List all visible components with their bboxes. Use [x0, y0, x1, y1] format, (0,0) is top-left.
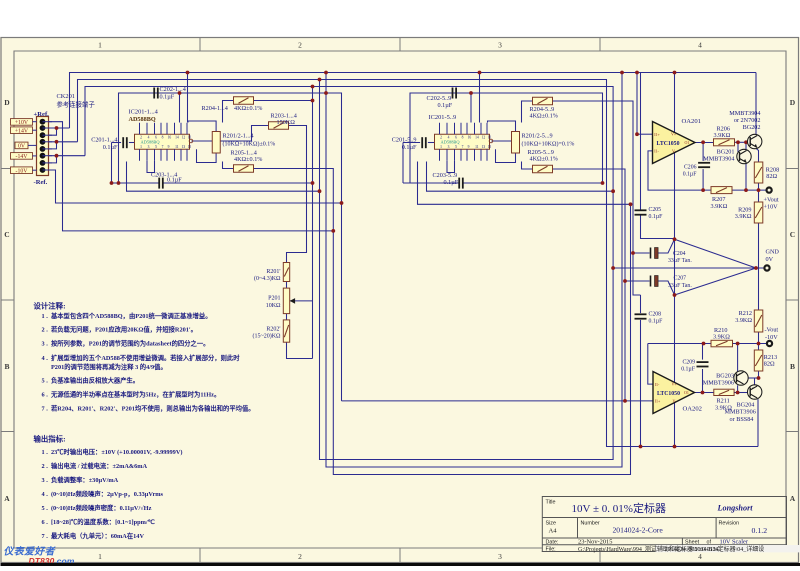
- svg-text:Sheet: Sheet: [685, 540, 700, 546]
- wire rail R209-GND: [758, 223, 760, 268]
- op-amp OA202 LTC1050: [653, 372, 695, 414]
- wire OA201 I1+ tap: [637, 133, 653, 135]
- svg-text:5: 5: [455, 145, 457, 149]
- wire C202 row block2: [410, 93, 603, 183]
- wire C203-1..4 row: [112, 182, 160, 184]
- wire C201-1..4 to IC: [129, 142, 135, 144]
- svg-text:11: 11: [475, 145, 479, 149]
- junction C204 lead: [631, 251, 635, 255]
- junction R211 node: [736, 391, 740, 395]
- svg-text:0V: 0V: [766, 256, 774, 263]
- junction x312 bus3: [311, 85, 315, 89]
- svg-text:A4: A4: [549, 528, 558, 535]
- junction GND row left: [611, 266, 615, 270]
- wire R207 out row to +Vout: [732, 189, 766, 191]
- wire triangle top diagonal: [675, 239, 757, 268]
- svg-text:3: 3: [148, 145, 150, 149]
- net label box 0V: [15, 142, 28, 149]
- junction BG201 emitter node: [744, 188, 748, 192]
- wire C204 right lead: [658, 239, 674, 253]
- svg-text:R212: R212: [739, 310, 752, 317]
- svg-text:13: 13: [182, 145, 186, 149]
- wire BG203 bottom fall: [737, 385, 739, 392]
- svg-text:C208: C208: [649, 312, 662, 318]
- svg-text:V+: V+: [672, 382, 678, 387]
- junction C202 row x325: [324, 91, 328, 95]
- svg-text:LTC1050: LTC1050: [657, 391, 680, 397]
- svg-text:0.1µF: 0.1µF: [444, 179, 459, 186]
- wire C208 column: [640, 295, 642, 313]
- junction block2 C203 row end: [601, 181, 605, 185]
- net label box -14V: [11, 153, 33, 160]
- svg-text:R201/2-5...9: R201/2-5...9: [522, 133, 553, 140]
- svg-text:(10KΩ+10KΩ)±0.1%: (10KΩ+10KΩ)±0.1%: [223, 140, 276, 147]
- svg-text:MMBT3904: MMBT3904: [729, 110, 760, 117]
- wire C201-5..9 to IC: [428, 142, 435, 144]
- svg-text:BG202: BG202: [743, 124, 761, 131]
- svg-text:7 . 最大耗电（九单元）：60mA在14V: 7 . 最大耗电（九单元）：60mA在14V: [42, 531, 145, 540]
- svg-text:3 . 按所列参数，P201的调节范围约为datashee: 3 . 按所列参数，P201的调节范围约为datasheet的四分之一。: [42, 339, 210, 348]
- transistor BG204 MMBT3906: [748, 385, 762, 399]
- svg-text:3.9KΩ: 3.9KΩ: [715, 405, 732, 412]
- svg-text:3.9KΩ: 3.9KΩ: [735, 317, 752, 324]
- svg-text:Longshort: Longshort: [717, 504, 754, 513]
- junction y446 x640: [639, 445, 643, 449]
- svg-text:Title: Title: [546, 500, 556, 506]
- svg-text:-10V: -10V: [16, 168, 29, 174]
- svg-text:3 . 负载调整率：±30µV/mA: 3 . 负载调整率：±30µV/mA: [42, 475, 119, 484]
- svg-text:R201/2-1...4: R201/2-1...4: [223, 133, 254, 140]
- transistor BG203 MMBT3906: [734, 371, 748, 385]
- svg-text:4KΩ±0.1%: 4KΩ±0.1%: [530, 156, 558, 163]
- wire OA202 out: [695, 392, 714, 394]
- svg-text:6 . 无源低通的半功率点在基本型时为5Hz，在扩展型时为: 6 . 无源低通的半功率点在基本型时为5Hz，在扩展型时为11Hz。: [42, 390, 221, 399]
- capacitor C203-1..4: [159, 178, 163, 189]
- connector CK201 pins: [40, 119, 46, 173]
- junction GND star: [754, 266, 758, 270]
- net label box -10V: [11, 167, 33, 174]
- wire C205 column bottom: [641, 215, 675, 238]
- resistor R209: [754, 202, 763, 223]
- ground terminal GND 0V: [764, 265, 769, 270]
- wire P201 wiper row: [290, 300, 313, 302]
- svg-text:0.1µF: 0.1µF: [649, 319, 664, 325]
- svg-text:10V ± 0. 01%定标器: 10V ± 0. 01%定标器: [572, 501, 666, 515]
- svg-text:-10V: -10V: [765, 334, 778, 341]
- svg-text:2 . 若负载无问题，P201应改用20KΩ值，并短接R2: 2 . 若负载无问题，P201应改用20KΩ值，并短接R201'。: [42, 325, 197, 334]
- wire BG201 emitter fall: [745, 163, 747, 190]
- svg-text:MMBT3904: MMBT3904: [703, 155, 734, 162]
- svg-text:V+: V+: [671, 132, 677, 137]
- svg-text:R202': R202': [266, 327, 280, 333]
- junction OA201 out node: [701, 140, 705, 144]
- wire IC1 bottom U: [147, 161, 155, 173]
- svg-text:AD588BQ: AD588BQ: [141, 140, 161, 145]
- resistor R208: [754, 162, 763, 183]
- svg-text:16: 16: [468, 135, 472, 139]
- wire loop1 vertical: [312, 87, 314, 359]
- capacitor C208: [635, 314, 647, 318]
- resistor R213: [754, 350, 763, 371]
- junction pin4/5: [55, 140, 59, 144]
- potentiometer P201 body: [283, 288, 289, 314]
- wire R204-1..4 row: [223, 101, 234, 123]
- file path highlight: [656, 545, 800, 552]
- wire rail R212 to -Vout row: [758, 332, 760, 344]
- svg-text:GND: GND: [766, 249, 780, 256]
- junction IC1 riser b: [186, 71, 190, 75]
- wire GND row: [613, 267, 764, 269]
- svg-text:C201-1...4: C201-1...4: [91, 137, 117, 144]
- svg-text:4 . (0~10)Hz频段噪声：2µVp-p，0.33µ: 4 . (0~10)Hz频段噪声：2µVp-p，0.33µVrms: [42, 489, 164, 498]
- svg-text:12: 12: [482, 135, 486, 139]
- svg-text:设计注释:: 设计注释:: [34, 302, 66, 311]
- wire BG201 collector riser: [745, 142, 747, 150]
- junction C202-5..9 row x470: [469, 91, 473, 95]
- wire pin8 -10V route: [49, 170, 342, 203]
- junction C202 row x179: [178, 91, 182, 95]
- wire BG203 base riser: [737, 344, 739, 374]
- svg-text:14: 14: [175, 135, 179, 139]
- wire C207 left lead: [625, 280, 650, 282]
- svg-text:+10V: +10V: [764, 204, 779, 211]
- svg-text:I1+: I1+: [654, 132, 660, 137]
- wire rail BG202 collector: [755, 73, 757, 135]
- capacitor C202-1..4: [154, 88, 158, 99]
- svg-text:2014024 10V±0.01%定标器\04_详细设: 2014024 10V±0.01%定标器\04_详细设: [665, 545, 765, 553]
- resistor R204-1..4: [234, 97, 254, 105]
- wire BG201 base riser: [737, 142, 739, 152]
- svg-text:1: 1: [440, 145, 442, 149]
- svg-text:1 . 基本型包含四个AD588BQ，由P201统一微调正: 1 . 基本型包含四个AD588BQ，由P201统一微调正基准增益。: [42, 311, 212, 320]
- junction OA201 I1+ tap: [635, 132, 639, 136]
- svg-text:R201': R201': [266, 269, 280, 275]
- junction BG201 collector: [744, 140, 748, 144]
- svg-text:-14V: -14V: [16, 154, 29, 160]
- svg-text:3: 3: [448, 145, 450, 149]
- junction +Vout rail: [757, 188, 761, 192]
- svg-text:C206: C206: [684, 164, 697, 170]
- wire C202-5..9 right lead: [454, 92, 602, 94]
- svg-text:(0~4.3)KΩ: (0~4.3)KΩ: [254, 275, 281, 282]
- wire C202-5..9 left lead: [410, 92, 451, 94]
- svg-text:C209: C209: [682, 360, 695, 366]
- wire OA202 V+ feed: [674, 295, 676, 382]
- connector CK201 pin stubs: [43, 122, 53, 170]
- svg-text:O1: O1: [685, 140, 690, 145]
- resistor R212: [754, 310, 763, 332]
- svg-text:3: 3: [498, 552, 502, 561]
- svg-text:B: B: [790, 362, 795, 371]
- junction top bus x637: [635, 71, 639, 75]
- svg-text:P201的调节范围将再减为注释 3 的4/9值。: P201的调节范围将再减为注释 3 的4/9值。: [42, 362, 167, 371]
- wire C201-5..9 left riser: [402, 143, 404, 184]
- junction fb R207 node: [701, 188, 705, 192]
- svg-text:0.1µF: 0.1µF: [438, 102, 453, 109]
- svg-text:0.1µF: 0.1µF: [160, 94, 175, 101]
- junction loop2 top bus1: [324, 71, 328, 75]
- svg-text:Number: Number: [581, 521, 600, 527]
- svg-text:2: 2: [298, 552, 302, 561]
- svg-text:33µF Tan.: 33µF Tan.: [668, 258, 692, 264]
- svg-text:R211: R211: [717, 398, 730, 405]
- svg-text:-Vout: -Vout: [765, 327, 779, 334]
- junction C209 bottom node: [701, 391, 705, 395]
- svg-text:2 . 输出电流 / 过载电流：±2mA&6mA: 2 . 输出电流 / 过载电流：±2mA&6mA: [42, 461, 148, 470]
- svg-text:9: 9: [468, 145, 470, 149]
- svg-text:6 . [18~28]℃的温度系数：[0.1~1]ppm/: 6 . [18~28]℃的温度系数：[0.1~1]ppm/℃: [42, 517, 155, 526]
- svg-text:3.9KΩ: 3.9KΩ: [713, 334, 730, 341]
- op-amp U IC201-5..9 AD588BQ body: [435, 123, 493, 161]
- capacitor C207 33µF: [651, 276, 659, 287]
- svg-text:0.1µF: 0.1µF: [103, 144, 118, 151]
- wire R211 to BG204 base: [734, 392, 750, 394]
- svg-text:3.9KΩ: 3.9KΩ: [714, 132, 731, 139]
- wire IC1 riser b: [187, 73, 189, 123]
- svg-text:CK201: CK201: [57, 93, 75, 100]
- junction R206 out node: [736, 140, 740, 144]
- svg-text:15: 15: [488, 145, 492, 149]
- svg-text:82Ω: 82Ω: [766, 173, 777, 180]
- junction IC2 fb row end: [629, 202, 633, 206]
- wire top bus row2: [78, 80, 759, 447]
- junction R210 left node: [702, 342, 706, 346]
- terminal -Vout: [767, 341, 772, 346]
- svg-text:150KΩ: 150KΩ: [277, 119, 296, 126]
- svg-text:1: 1: [98, 41, 102, 50]
- svg-text:C203-5..9: C203-5..9: [433, 172, 458, 179]
- svg-text:IC201-1...4: IC201-1...4: [129, 109, 159, 116]
- svg-text:33µF Tan.: 33µF Tan.: [668, 283, 692, 289]
- svg-text:3.9KΩ: 3.9KΩ: [711, 203, 728, 210]
- wire R201/2-5..9 top lead: [488, 121, 516, 132]
- wire C209 column a: [702, 344, 704, 360]
- wire OA202 I1+ long: [342, 400, 654, 402]
- wire pin3 join: [49, 128, 57, 135]
- svg-text:0.1µF: 0.1µF: [649, 214, 664, 220]
- resistor R201': [283, 263, 289, 282]
- svg-text:Date:: Date:: [546, 540, 559, 546]
- wire C204 left lead: [633, 252, 650, 254]
- wire R205-1..4 row: [223, 162, 234, 169]
- op-amp U IC201-1..4 AD588BQ body: [135, 123, 193, 161]
- wire R203-1..4 feed: [220, 126, 268, 142]
- wire R205-1..4 out: [254, 169, 631, 475]
- wire top bus row3: [85, 80, 613, 460]
- wire loop2: [326, 73, 622, 468]
- svg-text:5 . 负基准输出由反相放大器产生。: 5 . 负基准输出由反相放大器产生。: [42, 376, 140, 385]
- svg-text:I1-: I1-: [654, 149, 659, 154]
- svg-text:C207: C207: [674, 276, 687, 282]
- svg-text:0.1.2: 0.1.2: [752, 526, 768, 535]
- wire OA201 out: [695, 142, 714, 144]
- wire C203-1..4 out: [163, 182, 313, 184]
- junction rail R213 bottom: [757, 376, 761, 380]
- svg-text:+Ref.: +Ref.: [34, 111, 50, 118]
- svg-text:0V: 0V: [18, 144, 26, 150]
- svg-text:AD588BQ: AD588BQ: [129, 116, 156, 123]
- wire R201/2-5..9 bottom lead: [496, 149, 516, 162]
- wire BG204 emitter riser: [754, 378, 756, 385]
- resistor R205-1..4: [234, 165, 254, 173]
- svg-text:82Ω: 82Ω: [764, 361, 775, 368]
- svg-text:C: C: [790, 230, 795, 239]
- junction C207 lead: [623, 279, 627, 283]
- wire rail BG202 emitter to R208: [756, 148, 759, 162]
- output specs list: [42, 447, 183, 540]
- svg-text:C205: C205: [649, 207, 662, 213]
- svg-text:+10V: +10V: [15, 120, 29, 126]
- svg-text:or 2N7002: or 2N7002: [734, 117, 761, 124]
- svg-text:AD588BQ: AD588BQ: [441, 140, 461, 145]
- junction +10V row end: [331, 229, 335, 233]
- svg-text:OA201: OA201: [682, 118, 701, 125]
- svg-text:输出指标:: 输出指标:: [34, 435, 66, 444]
- svg-text:of: of: [707, 540, 712, 546]
- svg-text:(15~20)KΩ: (15~20)KΩ: [252, 332, 281, 339]
- svg-text:15: 15: [188, 145, 192, 149]
- wire C206 column b: [702, 169, 704, 190]
- junction pin2/3: [55, 126, 59, 130]
- wire R202' bottom loop: [287, 342, 313, 358]
- svg-text:1: 1: [140, 145, 142, 149]
- wire OA202 I1- feedback: [648, 344, 653, 385]
- title block frame: [542, 497, 786, 552]
- capacitor C203-5..9: [459, 178, 463, 189]
- junction C201 riser bottom: [110, 181, 114, 185]
- junction triangle bottom vertex: [673, 293, 677, 297]
- resistor R210: [711, 340, 733, 347]
- wire triangle left side: [674, 239, 676, 295]
- bottom black bar: [1, 563, 800, 567]
- wire R205-5..9 out: [553, 169, 626, 401]
- svg-text:2: 2: [298, 41, 302, 50]
- wire IC2 fb row2: [427, 162, 614, 192]
- svg-text:1: 1: [98, 552, 102, 561]
- capacitor C206: [698, 163, 710, 167]
- svg-text:I1+: I1+: [655, 399, 661, 404]
- svg-text:9: 9: [168, 145, 170, 149]
- wire C203-5..9 out: [463, 182, 603, 184]
- junction I1+ long x624: [623, 399, 627, 403]
- wire C202-1..4 left lead: [119, 92, 153, 94]
- svg-text:8: 8: [162, 135, 164, 139]
- svg-text:11: 11: [175, 145, 179, 149]
- wire R204-5..9 row: [522, 101, 533, 123]
- svg-text:0.1µF: 0.1µF: [167, 177, 182, 184]
- junction y446 x674: [673, 445, 677, 449]
- wire chain P201-R202': [286, 314, 288, 320]
- svg-text:A: A: [790, 494, 796, 503]
- junction triangle top vertex: [673, 237, 677, 241]
- svg-text:B: B: [4, 362, 9, 371]
- svg-text:4: 4: [698, 41, 702, 50]
- capacitor C201-5..9: [422, 137, 426, 148]
- wire R201/2-1..4 top lead: [188, 121, 216, 132]
- capacitor C202-5..9: [453, 88, 457, 99]
- svg-text:5 . (0~10)Hz频段噪声密度：0.11µV/√Hz: 5 . (0~10)Hz频段噪声密度：0.11µV/√Hz: [42, 503, 152, 512]
- transistor BG201 MMBT3904: [737, 149, 751, 163]
- wire OA201 I1+ column: [636, 73, 638, 135]
- resistor R204-5..9: [533, 97, 553, 105]
- capacitor C201-1..4: [123, 137, 127, 148]
- design notes list: [42, 311, 255, 413]
- wire OA201 V- to triangle: [674, 152, 676, 239]
- svg-text:3: 3: [498, 41, 502, 50]
- wire R206 to BG202 base: [735, 141, 750, 143]
- wire OA202 V- fall: [674, 403, 676, 447]
- svg-text:7: 7: [162, 145, 164, 149]
- wire chain R201'-P201: [286, 282, 288, 289]
- junction -Vout rail: [757, 342, 761, 346]
- svg-text:OA202: OA202: [683, 406, 702, 413]
- wire net label leads: [28, 122, 37, 171]
- wire pin5 join: [49, 142, 57, 149]
- wire R203-1..4 out to P201 chain: [287, 126, 307, 263]
- wire C205 column top: [640, 73, 642, 210]
- junction IC2 riser b: [478, 71, 482, 75]
- svg-text:14: 14: [475, 135, 479, 139]
- wire C204 junction drop: [633, 253, 641, 295]
- svg-text:16: 16: [168, 135, 172, 139]
- svg-text:C204: C204: [673, 251, 686, 257]
- svg-text:10KΩ: 10KΩ: [266, 303, 281, 309]
- svg-text:8: 8: [462, 135, 464, 139]
- resistor R211: [714, 389, 734, 395]
- svg-text:C201-5..9: C201-5..9: [392, 137, 417, 144]
- svg-text:O1: O1: [684, 390, 689, 395]
- wire top bus net +Ref row1: [70, 73, 757, 129]
- svg-text:3.9KΩ: 3.9KΩ: [735, 213, 752, 220]
- resistor R201/2-5..9: [512, 132, 520, 154]
- wire C207 right lead: [658, 281, 674, 295]
- svg-text:Revision: Revision: [719, 521, 740, 527]
- svg-text:4KΩ±0.1%: 4KΩ±0.1%: [234, 156, 262, 163]
- junction top bus x674: [673, 71, 677, 75]
- svg-text:13: 13: [482, 145, 486, 149]
- wire pin1 +10V route: [49, 122, 334, 231]
- junction R210 right node: [736, 342, 740, 346]
- svg-text:BG204: BG204: [737, 402, 755, 409]
- svg-text:1 . 23℃时输出电压：±10V (+10.00001V: 1 . 23℃时输出电压：±10V (+10.00001V, -9.99999V…: [42, 447, 183, 456]
- junction top bus x621: [620, 71, 624, 75]
- wire pin2 stub: [49, 127, 70, 129]
- connector CK201 body: [37, 117, 49, 176]
- wire triangle bottom diagonal: [675, 268, 757, 295]
- wire R210 out to -Vout: [733, 343, 767, 345]
- svg-text:I1-: I1-: [655, 382, 660, 387]
- wire rail R213 fall: [758, 371, 760, 378]
- svg-text:-Ref.: -Ref.: [34, 179, 48, 186]
- wire C209 column b: [702, 369, 704, 393]
- wire R210 row: [648, 343, 711, 345]
- svg-text:0.1µF: 0.1µF: [402, 144, 417, 151]
- resistor R205-5..9: [533, 165, 553, 173]
- svg-text:V-: V-: [673, 398, 678, 403]
- svg-text:2014024-2-Core: 2014024-2-Core: [613, 526, 664, 535]
- P201 wiper arrow: [290, 298, 295, 304]
- svg-text:MMBT3906: MMBT3906: [703, 379, 734, 386]
- junction fb row end: [318, 189, 322, 193]
- svg-text:P201: P201: [268, 296, 280, 302]
- svg-text:A: A: [4, 494, 10, 503]
- junction x319 bus2: [318, 78, 322, 82]
- svg-text:5: 5: [155, 145, 157, 149]
- svg-text:0.1µF: 0.1µF: [683, 172, 698, 178]
- wire IC2 riser b: [479, 73, 481, 123]
- svg-text:V-: V-: [672, 148, 677, 153]
- svg-text:0.1µF: 0.1µF: [681, 367, 696, 373]
